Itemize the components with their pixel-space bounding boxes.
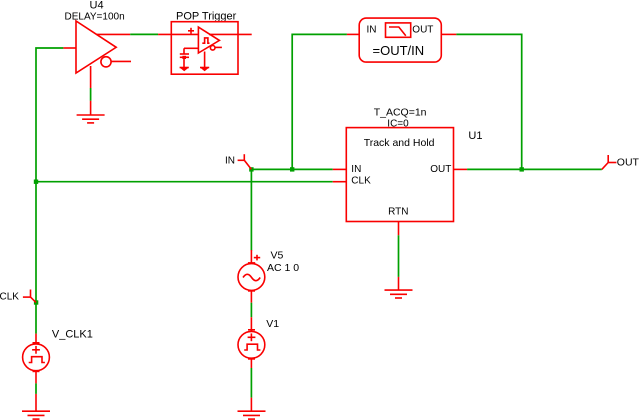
svg-text:OUT: OUT xyxy=(617,157,640,169)
svg-text:T_ACQ=1n: T_ACQ=1n xyxy=(374,106,427,118)
svg-text:Track and Hold: Track and Hold xyxy=(364,137,435,149)
wire IN net horizontal xyxy=(251,168,332,170)
wire RTN to ground xyxy=(398,235,400,277)
wire stub RTN ground xyxy=(398,277,400,290)
wire V1 to ground xyxy=(250,368,252,398)
svg-text:IN: IN xyxy=(367,25,377,36)
svg-text:OUT: OUT xyxy=(412,25,433,36)
svg-text:DELAY=100n: DELAY=100n xyxy=(65,11,125,22)
ground arrow POP left xyxy=(180,68,189,72)
node junction left CLK line xyxy=(34,180,38,184)
voltage source V_CLK1 xyxy=(23,334,50,384)
measurement block =OUT/IN xyxy=(347,18,457,62)
wire V5 up to IN net xyxy=(250,169,252,250)
wire U4 output xyxy=(130,33,158,35)
wire stub V1 ground xyxy=(250,398,252,412)
ground under RTN xyxy=(385,290,413,298)
svg-text:V1: V1 xyxy=(266,318,279,330)
wire OUT net xyxy=(467,168,602,170)
wire measurement out xyxy=(456,34,521,169)
wire POP internal right ground xyxy=(204,52,206,68)
node junction IN vertical xyxy=(290,167,294,171)
svg-text:IN: IN xyxy=(225,156,235,167)
svg-text:U4: U4 xyxy=(90,0,104,12)
svg-text:IN: IN xyxy=(351,164,361,175)
POP Trigger block xyxy=(158,22,252,74)
wire to measurement block xyxy=(292,34,347,169)
ground under U4 xyxy=(77,115,105,123)
wire V_CLK1 to ground xyxy=(35,383,37,394)
buffer U4 xyxy=(63,21,131,88)
svg-text:=OUT/IN: =OUT/IN xyxy=(373,43,425,58)
node junction CLK connector xyxy=(34,300,38,304)
voltage source V5 xyxy=(238,250,265,303)
svg-text:POP Trigger: POP Trigger xyxy=(176,10,237,22)
svg-text:RTN: RTN xyxy=(388,207,408,218)
svg-text:U1: U1 xyxy=(468,130,482,142)
wire net CLK left vertical xyxy=(36,48,63,334)
wire V5 to V1 xyxy=(250,303,252,318)
svg-text:CLK: CLK xyxy=(351,176,371,187)
ground arrow POP right xyxy=(200,68,209,72)
wire U4 ground segment xyxy=(90,88,92,101)
svg-text:V5: V5 xyxy=(271,250,284,262)
svg-text:CLK: CLK xyxy=(0,292,19,303)
off-page connector CLK xyxy=(23,290,36,303)
off-page connector IN xyxy=(238,154,252,169)
ground under V_CLK1 xyxy=(22,411,50,419)
wire stub V_CLK1 ground xyxy=(35,394,37,411)
Track and Hold block U1 xyxy=(333,128,467,236)
capacitor POP internal xyxy=(180,48,189,67)
node junction OUT xyxy=(520,167,524,171)
node junction IN connector xyxy=(249,167,253,171)
svg-text:AC 1 0: AC 1 0 xyxy=(267,262,299,274)
off-page connector OUT xyxy=(602,155,617,169)
ground under V1 xyxy=(238,411,266,419)
wire U4 ground stub xyxy=(90,101,92,115)
wire CLK horizontal to T&H xyxy=(36,181,333,183)
svg-text:OUT: OUT xyxy=(430,164,451,175)
voltage source V1 xyxy=(238,317,265,368)
svg-text:V_CLK1: V_CLK1 xyxy=(52,329,93,341)
